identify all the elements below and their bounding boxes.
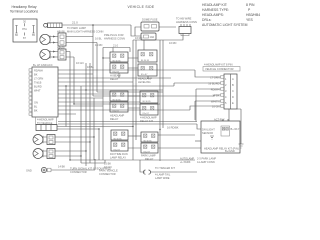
svg-text:HEADLAMPS:: HEADLAMPS:: [202, 13, 224, 17]
wire: park lamp feed top run: [62, 20, 131, 25]
wire: lower bundle y120: [58, 124, 201, 129]
wire: vertical bus x93: [92, 25, 94, 96]
wire: M6 to U1: [158, 147, 201, 149]
relay K1 terminal box: [13, 19, 37, 42]
svg-text:DAYLIGHT: DAYLIGHT: [202, 127, 215, 131]
wire: bulb B1 to C1 with arrows: [50, 36, 58, 44]
wire: B3 to C3: [43, 137, 47, 142]
wire: inter-module links row1: [103, 58, 138, 68]
wire: J1 row 11: [58, 106, 221, 110]
svg-text:Terminal Locations: Terminal Locations: [10, 10, 39, 14]
svg-text:LT GRN: LT GRN: [210, 75, 219, 79]
svg-text:DOME FUSE: DOME FUSE: [142, 17, 158, 21]
label park vehicle conn: [99, 168, 118, 175]
svg-text:4-LAMP CONN: 4-LAMP CONN: [197, 160, 215, 164]
svg-text:87a 87: 87a 87: [144, 151, 151, 153]
module internal pin ids: [113, 60, 153, 153]
wire: J2 out rows: [57, 127, 133, 161]
wire: J3 to ground vertical: [237, 109, 241, 144]
svg-text:BL: BL: [34, 105, 38, 109]
svg-text:LAMP RELAY: LAMP RELAY: [110, 155, 126, 159]
vertical bus x133 x136: [133, 40, 136, 160]
svg-text:MAIN LIGHT HARNESS CONN: MAIN LIGHT HARNESS CONN: [67, 29, 104, 33]
wire: fuse F1 to plug: [159, 26, 176, 28]
wire: mid bundle y127 131: [128, 135, 195, 148]
svg-text:BK: BK: [34, 109, 38, 113]
svg-text:86 30 85: 86 30 85: [143, 101, 152, 103]
connector C1 at bulb B1: [57, 29, 66, 50]
svg-text:16 BK: 16 BK: [104, 161, 111, 165]
wire: bulb B2 to C2 with arrows: [50, 51, 58, 59]
label: to park lamp harness: [67, 26, 104, 33]
wire: J1 row 12: [58, 113, 76, 115]
connector J3 right tall: [224, 74, 237, 109]
svg-text:16 BL/RD: 16 BL/RD: [208, 81, 219, 85]
bulb B4: [33, 149, 43, 159]
wire: staircase x74: [74, 101, 221, 104]
right connector header: [203, 62, 240, 71]
svg-text:4-HEADLAMP: 4-HEADLAMP: [37, 117, 54, 121]
svg-text:10A: 10A: [150, 35, 155, 39]
wire: feed drop into fuses: [131, 25, 141, 36]
wire: C4 out: [55, 63, 86, 166]
module M1 hi beam relay: [110, 52, 128, 81]
module M3 headlamp relay: [110, 91, 128, 121]
wire: module top stubs: [113, 40, 148, 79]
svg-text:SENSOR: SENSOR: [202, 131, 213, 135]
svg-text:B+ LP GND ACC: B+ LP GND ACC: [33, 63, 53, 67]
svg-text:AUTOMATIC LIGHT SYSTEM: AUTOMATIC LIGHT SYSTEM: [202, 23, 248, 27]
wire: bottom bus y163: [81, 160, 105, 163]
svg-text:TO PARK LAMP: TO PARK LAMP: [67, 26, 86, 30]
title: Headlamp Relay Terminal Locations: [10, 5, 39, 14]
wire: C1 pin B right and down x97: [66, 43, 97, 93]
wire: staircase x93 to J3: [93, 95, 221, 96]
module M5 DRL relay: [110, 130, 128, 159]
module M2 leveling: [138, 50, 157, 84]
svg-text:16 RD/BK: 16 RD/BK: [167, 126, 179, 130]
svg-text:DAYTIME RUN: DAYTIME RUN: [110, 152, 128, 156]
svg-text:B+/GND: B+/GND: [225, 149, 235, 153]
svg-text:RELAY: RELAY: [110, 117, 119, 121]
svg-text:+L PARK: +L PARK: [180, 160, 191, 164]
headlamp bulb B2: [40, 49, 50, 59]
connector J1 vehicle bulkhead: [32, 63, 58, 117]
svg-text:HB3/HB4: HB3/HB4: [246, 13, 260, 17]
svg-text:YES: YES: [246, 18, 254, 22]
svg-text:A: A: [232, 77, 234, 81]
svg-text:RD/WH: RD/WH: [211, 87, 220, 91]
wire: J1 row 9: [58, 101, 140, 103]
labels 16BK 16GN: [104, 161, 112, 168]
svg-text:TO TRAILER KIT: TO TRAILER KIT: [155, 166, 175, 170]
box U1 auto light module: [201, 117, 240, 153]
connector J2 strip: [36, 125, 57, 131]
module M6 park relay: [141, 132, 158, 161]
svg-text:RD/WH: RD/WH: [34, 69, 43, 73]
vertical bus x195: [194, 101, 196, 120]
wire labels 16BL 16RD: [76, 37, 102, 69]
svg-text:87a 87: 87a 87: [143, 113, 150, 115]
fuse F1 box DOME FUSE: [141, 17, 159, 31]
svg-text:VEHICLE SIDE: VEHICLE SIDE: [128, 5, 155, 9]
svg-text:87a 87: 87a 87: [113, 110, 120, 112]
svg-text:PRE-PLUG FOR: PRE-PLUG FOR: [104, 33, 124, 37]
wire: J1 row 5: [58, 83, 221, 86]
svg-text:GND: GND: [26, 168, 32, 172]
svg-text:16 RD: 16 RD: [169, 41, 176, 45]
svg-text:HARNESS CONN: HARNESS CONN: [104, 36, 125, 40]
bulb B3 park/turn: [33, 135, 43, 145]
svg-text:LT GRN: LT GRN: [34, 77, 43, 81]
svg-text:LEVELING: LEVELING: [138, 80, 151, 84]
svg-text:87a 87: 87a 87: [113, 71, 120, 73]
svg-text:BL/RD: BL/RD: [34, 85, 42, 89]
svg-text:TO HB WIRE: TO HB WIRE: [176, 16, 192, 20]
svg-text:RELAY: RELAY: [110, 77, 119, 81]
svg-text:86 30 85: 86 30 85: [144, 140, 153, 142]
wire: module feed top: [103, 48, 130, 53]
svg-text:21.0: 21.0: [113, 44, 119, 48]
headlamp bulb B1: [40, 34, 50, 44]
svg-text:ACT-RLY: ACT-RLY: [214, 117, 225, 121]
wire: vertical x66 from row1: [65, 86, 67, 127]
svg-text:Headlamp Relay: Headlamp Relay: [11, 5, 36, 9]
svg-text:87a 87: 87a 87: [141, 74, 148, 76]
connector P1 to HB wire harness: [176, 16, 197, 35]
connector C4: [47, 149, 55, 159]
svg-text:AUTOLAMP: AUTOLAMP: [180, 156, 194, 160]
svg-text:2-3 PARK LAMP: 2-3 PARK LAMP: [197, 156, 216, 160]
wire: bottom bus y160: [70, 159, 195, 161]
svg-text:PARK VEHICLE: PARK VEHICLE: [99, 168, 118, 172]
wire: staircase x97: [97, 91, 163, 93]
svg-text:BK: BK: [34, 73, 38, 77]
svg-text:WH/TN: WH/TN: [211, 99, 220, 103]
connector C3: [47, 135, 55, 145]
wire: J1 row 7: [58, 93, 110, 95]
wire: J1 row 3: [58, 77, 171, 79]
svg-text:16 BL: 16 BL: [87, 65, 94, 69]
ground ring terminal: [26, 161, 111, 174]
ground G1: [239, 144, 244, 148]
svg-text:RELAY KIT: RELAY KIT: [140, 119, 153, 123]
svg-text:CONNECTOR: CONNECTOR: [70, 170, 87, 174]
svg-text:CONNECTOR: CONNECTOR: [99, 172, 116, 176]
svg-text:E: E: [232, 101, 234, 105]
wire: inter-module links row3: [128, 135, 141, 137]
wire: J1 row 6: [58, 89, 221, 122]
svg-text:RELAY: RELAY: [145, 157, 154, 161]
svg-text:16 BK: 16 BK: [212, 93, 219, 97]
svg-text:87A: 87A: [22, 27, 27, 31]
wire: J1 row 10: [58, 105, 103, 107]
J3 pin stubs and labels: [208, 75, 224, 108]
wire: into U1 left mid: [195, 140, 201, 142]
svg-text:HEADLAMP: HEADLAMP: [138, 76, 153, 80]
spec table: [202, 3, 260, 27]
J1 pins and labels: [29, 69, 43, 116]
svg-text:14 BK: 14 BK: [58, 164, 65, 168]
svg-text:HEADLAMP KIT:: HEADLAMP KIT:: [202, 3, 227, 7]
wire: J1 row 8: [58, 97, 103, 99]
bottom right labels: [180, 156, 216, 163]
svg-text:TN/LB: TN/LB: [34, 81, 42, 85]
wire: B4 to C4: [43, 151, 47, 156]
wire: inter-module links row2: [128, 96, 140, 108]
inline connector pair: [140, 160, 197, 180]
wire: J3 bottom drop to U1: [228, 109, 230, 121]
label pre-plug: [104, 33, 125, 40]
junction dots: [69, 57, 160, 160]
svg-text:WH/T: WH/T: [34, 89, 41, 93]
svg-text:B+ RLY: B+ RLY: [231, 127, 240, 131]
wire: C2 pin A right and down x70: [66, 52, 70, 161]
svg-text:86 30 85: 86 30 85: [114, 138, 123, 140]
svg-text:4-HEADLAMP KIT 8 PIN: 4-HEADLAMP KIT 8 PIN: [204, 62, 233, 66]
svg-text:C: C: [232, 89, 234, 93]
svg-text:HEADLAMP: HEADLAMP: [110, 113, 125, 117]
svg-text:4-LAMP TAIL: 4-LAMP TAIL: [155, 172, 171, 176]
wire: C1 pin A right and down x93: [66, 36, 93, 38]
svg-text:86 30 85: 86 30 85: [113, 99, 122, 101]
svg-text:LAMP WIRE: LAMP WIRE: [155, 176, 170, 180]
wire: plug drop to 16RD run: [133, 34, 183, 45]
svg-text:16 BL: 16 BL: [95, 37, 102, 41]
vertical bus x160 x163: [160, 40, 163, 161]
connector C2 at bulb B2: [57, 46, 66, 60]
svg-text:86 30 85: 86 30 85: [141, 60, 150, 62]
wire: J1 row 4: [58, 81, 133, 83]
svg-text:16 RD: 16 RD: [95, 43, 102, 47]
svg-text:VEHICLE CONNECTOR: VEHICLE CONNECTOR: [205, 67, 234, 71]
svg-text:4-HEADLAMP: 4-HEADLAMP: [140, 116, 157, 120]
svg-text:21.0: 21.0: [72, 20, 78, 24]
module M4: [140, 91, 158, 123]
svg-text:B: B: [232, 83, 234, 87]
svg-text:86 30 85: 86 30 85: [113, 60, 122, 62]
svg-text:16 GN: 16 GN: [212, 104, 220, 108]
wire: C3 out: [55, 63, 94, 163]
svg-text:16 GN: 16 GN: [104, 165, 112, 169]
wire: J1 row 1: [58, 70, 221, 77]
svg-text:D: D: [232, 95, 234, 99]
svg-text:HARNESS TYPE:: HARNESS TYPE:: [202, 8, 229, 12]
svg-text:8 PIN: 8 PIN: [246, 3, 255, 7]
svg-text:87a 87: 87a 87: [114, 149, 121, 151]
fuse F2 box: [141, 33, 156, 40]
wire: J1 row 2: [58, 73, 93, 75]
wire: C2 pin B right and down x74: [66, 57, 74, 104]
svg-text:GN: GN: [34, 101, 38, 105]
wire: lower bundle y118: [58, 121, 197, 123]
inline plug X1 (top left of park feed): [44, 23, 62, 28]
svg-text:DRLs:: DRLs:: [202, 18, 211, 22]
label under J1: [36, 117, 57, 125]
svg-text:PARK LAMP: PARK LAMP: [141, 154, 156, 158]
svg-text:16 RD: 16 RD: [135, 36, 142, 40]
vertical bus x103: [102, 48, 104, 161]
svg-text:HARNESS CONN: HARNESS CONN: [176, 20, 197, 24]
svg-text:16 GN: 16 GN: [76, 61, 84, 65]
